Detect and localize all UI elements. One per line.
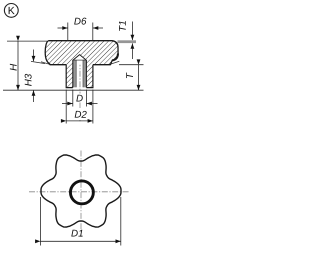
T dimension line with arrows xyxy=(138,65,140,91)
centerline section (vertical) xyxy=(79,50,81,122)
label D xyxy=(76,94,84,103)
D2 dimension line with arrows xyxy=(66,120,93,122)
H3 top arrow (outside, pointing down) xyxy=(33,50,35,62)
hole wall lines xyxy=(73,60,87,88)
centerline vertical xyxy=(80,151,82,238)
knob flange cross-section fill xyxy=(45,41,118,65)
svg-text:D6: D6 xyxy=(74,16,87,27)
hatch right flange+hub wall xyxy=(86,41,118,88)
D1 extension lines xyxy=(40,197,120,246)
base extension line xyxy=(3,89,144,91)
tent base line xyxy=(73,59,87,61)
D dimension arrows outside xyxy=(62,103,73,105)
svg-text:T: T xyxy=(125,72,136,79)
dimension H extension top line xyxy=(7,40,47,42)
dimension H line with arrows xyxy=(17,41,19,90)
hole top cone (drill chamfer) xyxy=(73,55,87,61)
background lobe bottom right xyxy=(110,61,119,64)
hub outline xyxy=(66,65,93,88)
label D2 xyxy=(75,110,87,119)
thick bottom-right corner accent xyxy=(112,54,118,61)
flange bottom extension line right xyxy=(119,64,144,66)
H3 top reference line xyxy=(31,61,45,63)
D6 extension lines xyxy=(68,23,93,41)
svg-text:K: K xyxy=(8,5,15,17)
D6 dimension arrows outside xyxy=(58,27,68,29)
background lobe bottom left xyxy=(41,62,50,65)
svg-text:H: H xyxy=(9,63,20,71)
D1 dimension line with arrows xyxy=(40,240,120,242)
svg-text:T1: T1 xyxy=(118,20,129,31)
svg-text:D: D xyxy=(76,93,83,104)
hatch above hole cone xyxy=(73,41,87,60)
T1 arrows xyxy=(131,22,133,41)
star knob outline (6 lobes) xyxy=(41,155,121,227)
svg-text:H3: H3 xyxy=(23,73,34,86)
form symbol K circle top-left xyxy=(4,3,18,17)
hub ring xyxy=(70,181,93,204)
centerline horizontal xyxy=(29,191,130,193)
svg-text:D1: D1 xyxy=(71,228,84,239)
hatch left flange+hub wall xyxy=(45,41,73,88)
thread minor diameter lines xyxy=(76,60,83,87)
H3 bottom arrow (outside, pointing up) xyxy=(33,90,35,102)
D2 extension lines xyxy=(66,90,93,124)
grey washer band T1 (right of knob top) xyxy=(118,40,137,43)
flange outline stroke xyxy=(45,41,118,65)
svg-text:D2: D2 xyxy=(74,110,87,121)
thread grey zones in hole xyxy=(73,60,76,88)
D extension lines xyxy=(73,90,87,107)
